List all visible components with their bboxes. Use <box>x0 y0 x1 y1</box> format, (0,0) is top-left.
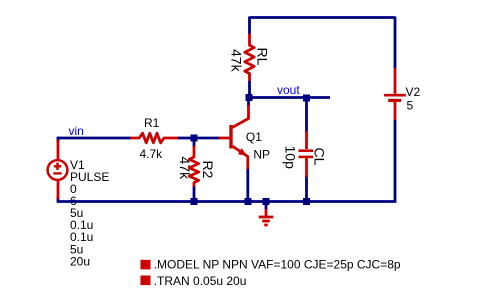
svg-text:NP: NP <box>253 148 270 162</box>
svg-text:.MODEL NP NPN VAF=100 CJE=25p: .MODEL NP NPN VAF=100 CJE=25p CJC=8p <box>154 258 401 272</box>
svg-text:vin: vin <box>69 124 84 138</box>
svg-text:5: 5 <box>407 98 414 112</box>
svg-text:10p: 10p <box>283 146 299 170</box>
svg-text:4.7k: 4.7k <box>140 147 164 161</box>
svg-text:CL: CL <box>312 148 328 166</box>
svg-text:RL: RL <box>255 48 271 66</box>
svg-text:vout: vout <box>277 83 300 97</box>
svg-text:R2: R2 <box>200 161 216 179</box>
svg-text:Q1: Q1 <box>246 130 262 144</box>
svg-text:.TRAN 0.05u 20u: .TRAN 0.05u 20u <box>154 274 247 288</box>
svg-text:20u: 20u <box>70 254 90 268</box>
svg-text:V2: V2 <box>406 85 421 99</box>
svg-text:47k: 47k <box>229 49 245 73</box>
svg-text:R1: R1 <box>144 116 160 130</box>
